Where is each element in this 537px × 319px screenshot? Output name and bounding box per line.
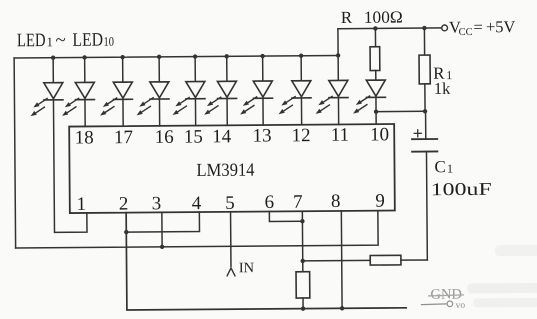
wire cathode LED9 to pin 11 (337, 98, 339, 125)
junction dot pin3 on V+ bus (160, 245, 164, 249)
svg-text:14: 14 (212, 126, 232, 147)
svg-text:LED: LED (72, 30, 103, 51)
svg-text:1k: 1k (434, 79, 451, 98)
svg-text:7: 7 (293, 192, 303, 213)
svg-text:3: 3 (152, 193, 162, 214)
junction dot pin8 on GND rail (340, 306, 344, 310)
svg-text:17: 17 (114, 127, 133, 148)
junction dot pin7/R2 (301, 259, 305, 263)
value label R1 (433, 64, 452, 83)
wire pin 4 bracket to pin 2 (126, 212, 199, 232)
LED LED8 (278, 81, 311, 115)
junction dot bus LED1 (51, 55, 55, 59)
wire mid V+ bus to pin 9 (15, 211, 378, 248)
capacitor C1 bottom plate (412, 150, 437, 152)
svg-text:4: 4 (192, 193, 202, 214)
wire capacitor bottom down (425, 152, 428, 260)
junction dot bus LED3 (120, 55, 124, 59)
wire anode LED8 (300, 56, 302, 81)
wire cathode LED6 to pin 14 (226, 99, 228, 126)
ground faint terminal line (422, 303, 447, 306)
junction dot bus LED9 rail corner (336, 53, 340, 57)
resistor R1 top lead (423, 28, 425, 55)
junction dot rail R1 top (422, 26, 426, 30)
wire cathode LED4 to pin 16 (158, 99, 160, 126)
wire cathode LED1 down to pin1 bracket (53, 100, 87, 233)
wire pin 2 down and bottom GND rail (126, 210, 406, 310)
resistor R2 body (horizontal) (370, 255, 401, 265)
wire cathode LED2 to pin 18 (84, 100, 86, 127)
svg-text:12: 12 (291, 125, 310, 146)
junction dot bus LED4 (157, 55, 161, 59)
junction dot bus LED7 (260, 54, 264, 58)
svg-text:10: 10 (103, 34, 114, 49)
watermark smudge 3 (473, 298, 537, 308)
terminal Vcc (442, 25, 448, 31)
svg-text:IN: IN (239, 260, 255, 276)
resistor R1 bottom lead (424, 84, 426, 111)
wire left frame vertical (V+ net) (14, 58, 15, 248)
LED LED5 (172, 81, 205, 115)
svg-text:vо: vо (456, 301, 466, 311)
wire R1 bottom to capacitor top (425, 111, 427, 138)
svg-text:10: 10 (370, 124, 389, 145)
resistor R bottom lead (375, 71, 377, 81)
svg-text:CC: CC (459, 27, 473, 38)
svg-text:6: 6 (264, 192, 274, 213)
capacitor C1 top plate (412, 138, 437, 140)
svg-text:LM3914: LM3914 (196, 161, 254, 181)
junction dot pin6/pin7 (300, 219, 304, 223)
value label R 100ohm (341, 8, 403, 27)
junction dot bus LED6 (225, 54, 229, 58)
wire anode LED2 (84, 57, 86, 82)
svg-text:R: R (341, 8, 353, 27)
wire anode LED9 (337, 55, 339, 80)
wire pin 7 node to R2 left lead (303, 259, 370, 262)
svg-text:1: 1 (46, 34, 53, 49)
LED LED4 (136, 82, 169, 116)
junction dot pin10 node (374, 109, 378, 113)
svg-text:8: 8 (331, 191, 341, 212)
resistor R1 body (419, 55, 430, 84)
wire anode LED4 (158, 57, 160, 82)
svg-text:11: 11 (331, 125, 349, 146)
resistor R3 bottom lead (302, 298, 304, 309)
resistor R body (370, 47, 380, 71)
wire rail-to-bus vertical (337, 29, 339, 56)
svg-text:+5V: +5V (486, 17, 516, 36)
svg-text:13: 13 (252, 125, 271, 146)
input arrow chevron IN (227, 268, 235, 276)
svg-text:C: C (434, 157, 445, 176)
svg-text:LED: LED (17, 30, 46, 51)
svg-text:100Ω: 100Ω (364, 8, 403, 27)
junction dot bus LED5 (193, 54, 197, 58)
wire anode LED1 (52, 58, 54, 83)
svg-text:18: 18 (75, 127, 94, 148)
svg-text:5: 5 (225, 193, 235, 214)
op-amp U1 LM3914 IC body (69, 124, 395, 213)
wire cathode LED5 to pin 15 (194, 99, 196, 126)
wire cathode LED7 to pin 13 (262, 98, 264, 125)
wire anode LED5 (194, 57, 196, 82)
svg-text:16: 16 (155, 127, 174, 148)
value label C1 (434, 157, 453, 176)
svg-text:100uF: 100uF (431, 179, 492, 199)
wire anode LED3 (122, 57, 124, 82)
wire Vcc rail (338, 27, 442, 30)
wire node pin10 to R1/C1 column (376, 110, 425, 112)
svg-text:2: 2 (119, 194, 129, 215)
LED LED3 (100, 82, 133, 116)
wire cathode LED3 to pin 17 (122, 99, 124, 126)
capacitor C1 plus sign (414, 130, 421, 137)
wire pin 3 stub to V+ bus (161, 212, 163, 246)
svg-text:1: 1 (447, 162, 453, 176)
ground faint terminal circle (447, 301, 453, 307)
LED LED6 (204, 81, 237, 115)
LED LED10 (353, 80, 386, 114)
svg-text:~: ~ (55, 30, 65, 51)
wire pin 6 bracket to pin 7 (269, 211, 302, 221)
resistor R top lead (374, 28, 376, 46)
label LED1 ~ LED10 (17, 30, 114, 52)
wire anode LED7 (262, 56, 264, 81)
LED LED2 (62, 82, 95, 116)
junction dot bus LED8 (299, 54, 303, 58)
junction dot rail R top (373, 26, 377, 30)
wire anode LED6 (226, 56, 228, 81)
watermark smudge 1 (495, 245, 537, 256)
wire cathode LED10 to pin 10 (375, 97, 377, 124)
value label Vcc = +5V (449, 17, 516, 38)
svg-text:9: 9 (375, 191, 385, 212)
wire cathode LED8 to pin 12 (300, 98, 302, 125)
resistor R2 right lead up to capacitor (401, 259, 427, 261)
LED LED7 (240, 81, 273, 115)
svg-text:1: 1 (76, 194, 86, 215)
junction dot bus LED2 (82, 55, 86, 59)
junction dot pin2/pin4 (124, 230, 128, 234)
junction dot R1/C1 node (423, 109, 427, 113)
LED LED9 (315, 80, 348, 114)
wire pin 5 input stub (230, 212, 232, 266)
LED LED1 (30, 83, 63, 117)
wire pin 7 down (301, 211, 303, 271)
svg-text:=: = (473, 17, 482, 36)
watermark smudge 2 (467, 283, 537, 294)
wire pin 8 down to GND rail (340, 211, 343, 308)
wire top anode bus (V+ net) (14, 55, 338, 58)
junction dot R3 on GND rail (301, 306, 305, 310)
resistor R3 body (vertical, pin7 to GND) (296, 272, 310, 298)
svg-text:15: 15 (184, 127, 203, 148)
